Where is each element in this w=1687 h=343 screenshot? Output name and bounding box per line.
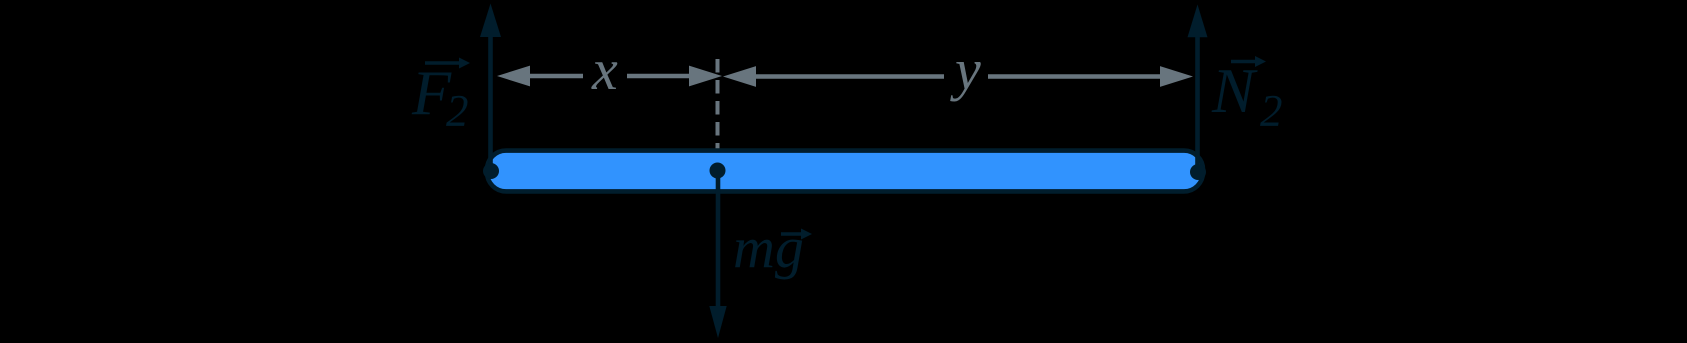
svg-text:2: 2 <box>446 86 469 136</box>
svg-text:x: x <box>591 37 618 102</box>
svg-text:N: N <box>1211 55 1258 126</box>
svg-text:y: y <box>950 37 981 102</box>
svg-text:2: 2 <box>1260 86 1283 136</box>
svg-text:mg: mg <box>733 215 804 280</box>
